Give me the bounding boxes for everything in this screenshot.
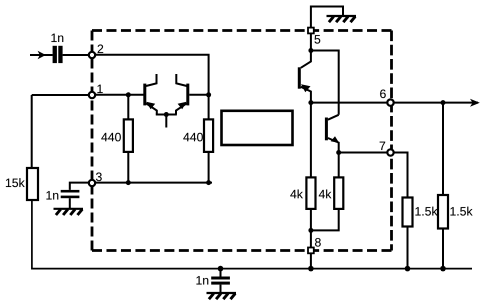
capacitor C2 1n plates [61,190,80,193]
wire emitter tail stub [165,115,167,128]
node junction bottom rail node8 [308,266,314,272]
node junction 440R bottom [206,180,211,185]
node 6 [387,99,393,105]
resistor R4 4k [306,177,315,209]
wire junction to Q4 collector rail [311,51,339,115]
wire down to 4k right [338,153,340,178]
ground at node3 cap [54,209,84,215]
pin number 6 [380,89,386,98]
dashed IC boundary box [92,31,392,251]
node junction 1.5k right bottom [440,266,446,272]
pin number 8 [315,238,321,247]
wire node3 rail [94,182,212,184]
node 7 [387,149,393,155]
node 3 [89,180,95,186]
label R3 value 440 [183,133,203,142]
wire 1.5k right bottom [442,229,444,269]
node junction 4k join [308,228,313,233]
wire left rail down [31,95,33,168]
node junction below 5 [308,48,313,53]
resistor R7 1.5k [438,195,448,229]
resistor R6 1.5k [403,198,413,227]
transistor Q3 [298,51,311,104]
wire Q4 base rail down [310,103,312,178]
wire 15k to bottom rail [32,200,472,269]
wire output rail [311,102,478,104]
wire node5 down [310,33,312,50]
wire input line [30,54,53,56]
wire cap to ground [69,198,71,208]
wire 4k bottoms join [311,209,339,231]
resistor R1 15k [27,168,38,200]
output arrow [470,99,480,107]
wire 1.5k left bottom [407,227,409,269]
label C3 value 1n [196,276,208,284]
transistor Q2 right of diff pair [176,74,189,115]
resistor R2 440 [124,119,133,151]
node junction bottom cap [218,266,224,272]
label C2 value 1n [46,191,58,199]
label R5 value 4k [319,189,332,198]
pin number 7 [380,142,386,150]
transistor Q1 left of diff pair [143,74,157,115]
wire node7 to 1.5k left [393,153,408,198]
node 8 square [308,248,314,254]
wire node1 to Q1 base [94,94,144,96]
label R7 value 1.5k [450,207,472,216]
ground at bottom cap [207,293,237,299]
wire down to 440 left [127,95,129,120]
node 2 [89,52,95,58]
wire 440 right bottom [208,152,210,183]
node junction 440L bottom [126,180,131,185]
middle block box [222,111,293,145]
node junction Q4 emitter [336,150,341,155]
label R1 value 15k [6,178,25,187]
node junction right 440 top [206,92,211,97]
capacitor C3 1n bottom [220,269,222,277]
label R4 value 4k [290,189,303,198]
node 5 square [308,28,314,34]
capacitor C1 1n input plates [53,46,57,63]
pin number 3 [96,172,102,181]
node junction right 1.5k top [441,100,446,105]
pin number 2 [98,44,104,53]
wire join to node 8 [310,230,312,247]
node junction left 440 top [126,92,131,97]
wire node8 to bottom rail [310,253,312,268]
wire 1.5k right top [442,103,444,195]
node 1 [89,92,95,98]
wire cap to node 2 [63,54,90,56]
wire node2 to right corner down to Q2 base rail [94,55,209,95]
pin number 5 [314,35,320,44]
input arrow [38,51,46,60]
label C1 value 1n [51,34,63,42]
wire common emitter [156,114,177,116]
wire node3 to cap [70,183,90,190]
pin number 1 [97,85,102,93]
wire 440 left bottom [127,152,129,183]
resistor R5 4k [334,177,343,209]
wire Q2 base to rail [189,94,208,96]
transistor Q4 [325,115,339,153]
node junction 1.5k left bottom [405,266,411,272]
wire emitter to node 7 [339,152,388,154]
wire node5 to top ground [311,7,343,28]
wire node1 to left rail [32,94,90,96]
label R2 value 440 [101,133,121,142]
label R6 value 1.5k [415,207,437,216]
node junction output rail [308,100,313,105]
wire down to 440 right [208,95,210,120]
node common emitter junction [164,112,169,117]
resistor R3 440 [204,119,213,151]
ground top [327,16,357,22]
